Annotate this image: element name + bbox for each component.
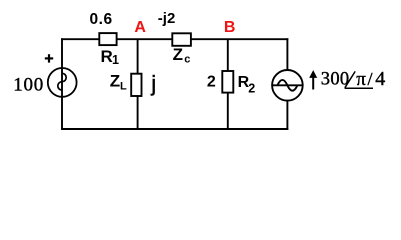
svg-text:R: R [101, 47, 113, 66]
angle symbol slash [345, 71, 355, 87]
inductor ZL (impedance box) [131, 74, 141, 96]
svg-text:100: 100 [13, 75, 44, 96]
voltage source V1 sine squiggle [58, 73, 66, 90]
svg-text:B: B [224, 19, 236, 36]
svg-text:c: c [184, 53, 190, 65]
svg-text:Z: Z [173, 45, 183, 64]
voltage source V1 plus sign [45, 54, 53, 62]
resistor R1 [99, 33, 116, 45]
svg-text:j: j [150, 71, 156, 96]
angle symbol underline [345, 87, 373, 89]
svg-text:A: A [134, 19, 146, 36]
wire left branch [61, 38, 63, 130]
current source I1 sine wave [277, 80, 297, 91]
wire right branch [286, 38, 288, 130]
wire node B branch [227, 39, 229, 129]
capacitor Zc (impedance box) [172, 33, 191, 46]
svg-text:-j2: -j2 [158, 10, 176, 27]
wire bottom rail [61, 128, 288, 130]
current source I1 (right AC source circle) [272, 70, 303, 101]
svg-text:π: π [356, 69, 366, 90]
svg-text:0.6: 0.6 [90, 11, 113, 28]
current direction arrow [312, 77, 314, 90]
svg-text:/: / [368, 69, 373, 89]
svg-text:Z: Z [110, 71, 120, 90]
svg-text:2: 2 [207, 74, 216, 91]
wire top rail [61, 38, 288, 40]
wire node A branch [137, 39, 139, 129]
svg-text:1: 1 [112, 53, 119, 67]
voltage source V1 (left AC source circle) [48, 68, 77, 97]
svg-text:2: 2 [248, 82, 255, 96]
resistor R2 [222, 71, 233, 93]
current source I1 chord line [272, 84, 303, 86]
svg-text:L: L [120, 81, 127, 93]
svg-text:4: 4 [375, 68, 385, 90]
